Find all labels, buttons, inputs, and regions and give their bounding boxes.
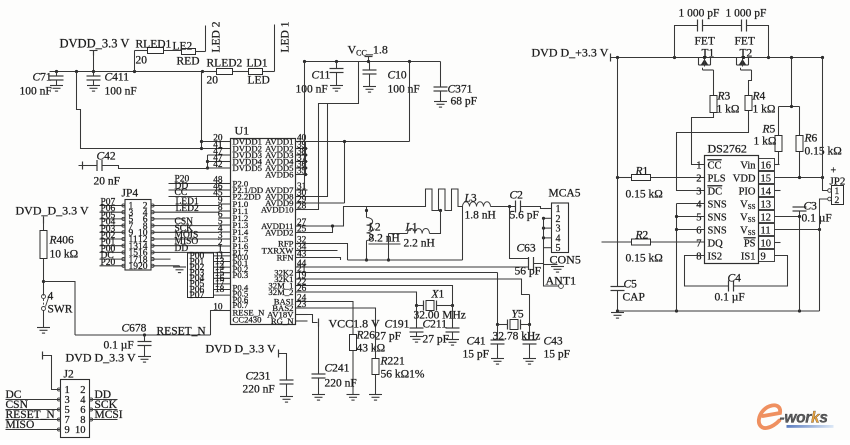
inductor L2 — [366, 207, 368, 218]
svg-text:42: 42 — [213, 160, 223, 170]
svg-text:RLED1: RLED1 — [136, 39, 172, 51]
U1 pin 44 — [296, 266, 308, 268]
wire rail to JP2 pin1 — [822, 58, 824, 178]
svg-text:32M_2: 32M_2 — [268, 287, 293, 297]
crystal X1 — [415, 304, 418, 307]
svg-text:MCSI: MCSI — [95, 409, 123, 421]
svg-text:6: 6 — [696, 225, 701, 236]
switch SWR — [42, 295, 46, 299]
svg-text:C371: C371 — [448, 84, 473, 96]
wire VDD net — [775, 177, 823, 179]
svg-text:C4: C4 — [728, 273, 742, 285]
net label P03 — [214, 272, 231, 274]
wire RLED2 to LD1 — [233, 71, 249, 73]
svg-text:DVD D_3.3 V: DVD D_3.3 V — [206, 342, 276, 356]
svg-text:C678: C678 — [122, 323, 147, 335]
wire RFP step — [308, 244, 348, 261]
svg-text:1 kΩ: 1 kΩ — [754, 136, 777, 148]
MCA5 pin 4 — [544, 237, 552, 239]
svg-text:FET: FET — [735, 36, 755, 48]
wire AVDD10 feed — [308, 104, 328, 210]
ground C241 — [312, 394, 325, 396]
wire R5 to Vin — [775, 152, 779, 165]
wire U1 DVDD2 pin — [202, 148, 231, 150]
svg-text:220 nF: 220 nF — [325, 378, 357, 390]
svg-text:DVDD5: DVDD5 — [233, 163, 262, 173]
capacitor C5 — [611, 286, 625, 288]
wire meander to L1 right — [430, 211, 441, 234]
wire R406 junction to RESET wire — [44, 282, 76, 336]
svg-text:L3: L3 — [464, 193, 477, 205]
svg-text:C11: C11 — [312, 70, 331, 82]
svg-text:AVDD2: AVDD2 — [265, 227, 293, 237]
svg-text:100 nF: 100 nF — [388, 84, 420, 96]
connector JP4 body — [125, 200, 151, 271]
JP4 pin 11 P02 — [100, 238, 126, 240]
ground C678 — [138, 356, 151, 358]
ground C43 — [523, 358, 536, 360]
svg-text:CAP: CAP — [623, 292, 645, 304]
svg-text:P20: P20 — [101, 258, 116, 268]
svg-text:R406: R406 — [49, 235, 75, 247]
svg-text:R6: R6 — [804, 133, 818, 145]
svg-text:DC: DC — [708, 186, 723, 197]
wire DVDD vertical to U1 pins — [201, 72, 203, 149]
svg-text:15 pF: 15 pF — [463, 349, 490, 361]
wire R6 to VDD net — [799, 152, 801, 178]
svg-text:23: 23 — [297, 300, 307, 310]
net label P06 — [214, 289, 231, 291]
wire C63 to ANT1 — [534, 264, 559, 287]
svg-text:RFN: RFN — [277, 252, 295, 262]
svg-text:DVDD_3.3 V: DVDD_3.3 V — [60, 37, 130, 51]
net label P01 — [214, 261, 231, 263]
wire bottom rail — [618, 310, 820, 312]
wire JP4 to U1 stub — [151, 258, 171, 260]
svg-text:8.2 nH: 8.2 nH — [369, 233, 400, 245]
wire TXRXW stub — [308, 250, 338, 252]
svg-text:J2: J2 — [64, 369, 74, 381]
svg-text:32.78 kHz: 32.78 kHz — [493, 331, 541, 343]
svg-text:-works: -works — [780, 410, 829, 427]
svg-text:C43: C43 — [544, 336, 563, 348]
wire R3 to DS2762 CC — [692, 113, 714, 165]
wire pin16 stub — [775, 164, 780, 166]
svg-text:C41: C41 — [467, 336, 486, 348]
svg-text:0.15 kΩ: 0.15 kΩ — [626, 189, 663, 201]
svg-text:18: 18 — [215, 285, 225, 295]
power tick DVD_D_+3.3V — [610, 54, 612, 62]
svg-text:SNS: SNS — [708, 225, 727, 236]
net label P20 — [169, 183, 219, 185]
wire IS2 to C4 — [685, 256, 729, 287]
ground C10 — [363, 86, 376, 88]
capacitor C42 — [96, 160, 98, 171]
svg-text:AVDD6: AVDD6 — [265, 169, 294, 179]
svg-text:L1: L1 — [405, 222, 418, 234]
svg-text:C211: C211 — [423, 319, 448, 331]
svg-text:10 kΩ: 10 kΩ — [50, 249, 79, 261]
wire C3 ground down — [799, 217, 801, 312]
JP4 pin 1 P07 — [100, 205, 126, 207]
svg-text:5: 5 — [696, 212, 701, 223]
svg-text:1 kΩ: 1 kΩ — [717, 104, 740, 116]
wire to J2 pin1 — [43, 356, 61, 390]
net label P00 — [214, 255, 231, 257]
svg-text:C241: C241 — [325, 363, 350, 375]
svg-text:14: 14 — [761, 186, 772, 197]
svg-text:15: 15 — [761, 173, 772, 184]
power tick DVDD_3.3V — [93, 51, 95, 56]
wire DVDD rail down left jog — [77, 72, 202, 149]
wire RESET_N net — [75, 334, 211, 336]
ground C191 — [410, 336, 423, 338]
svg-text:1 000 pF: 1 000 pF — [726, 8, 767, 20]
svg-text:0.1 µF: 0.1 µF — [715, 292, 745, 304]
ground R26 — [347, 394, 360, 396]
wire SNS bus — [677, 203, 705, 205]
svg-text:VCC1.8 V: VCC1.8 V — [329, 317, 380, 331]
resistor RLED2 — [217, 69, 233, 75]
svg-text:CON5: CON5 — [550, 253, 581, 267]
node P0 bus label frame — [188, 253, 214, 298]
svg-text:9: 9 — [761, 251, 766, 262]
wire T2 gate bracket to R4 — [741, 69, 752, 71]
svg-text:27 pF: 27 pF — [375, 331, 402, 343]
JP4 pin 3 P06 — [100, 211, 126, 213]
capacitor C10 — [369, 62, 371, 70]
ground R221 — [369, 394, 382, 396]
resistor R2 — [602, 241, 632, 243]
svg-text:RESET_N: RESET_N — [157, 326, 207, 338]
resistor R3 — [710, 96, 717, 113]
wire RLED1 to LED2 — [164, 50, 182, 52]
svg-text:MCA5: MCA5 — [549, 188, 581, 200]
wire R4 to DS2762 DC — [677, 111, 749, 191]
svg-text:20: 20 — [207, 75, 219, 87]
svg-text:10: 10 — [75, 425, 86, 436]
svg-text:43: 43 — [297, 250, 307, 260]
connector J2 body — [61, 380, 90, 438]
power tick Vcc_1.8 — [365, 56, 373, 58]
svg-text:T2: T2 — [740, 48, 753, 60]
svg-text:DQ: DQ — [708, 238, 724, 249]
power tick C42 net — [82, 162, 84, 170]
svg-text:CC: CC — [708, 160, 722, 171]
wire J2 RESET_N — [6, 419, 61, 421]
JP4 pin 15 P00 — [100, 251, 126, 253]
svg-text:LED 2: LED 2 — [211, 21, 223, 52]
power tick VCC1.8V — [318, 319, 320, 327]
svg-text:2: 2 — [835, 196, 840, 206]
ground C41 — [491, 358, 504, 360]
JP4 pin 17 DC — [100, 258, 126, 260]
JP4 pin 19 P20 — [100, 265, 126, 267]
wire MCA5 ground pins — [543, 218, 545, 264]
resistor R4 — [745, 96, 752, 111]
svg-text:5.6 pF: 5.6 pF — [510, 210, 539, 222]
ground CON5 — [551, 266, 564, 268]
capacitor C411 — [93, 72, 95, 76]
wire C2 node down to C63 — [510, 207, 529, 259]
wire pin11 net — [775, 229, 820, 231]
wire AV18V to VCC1.8V tick — [308, 315, 318, 323]
wire J2 CSN — [6, 409, 61, 411]
svg-text:JP4: JP4 — [122, 188, 139, 200]
svg-text:56 pF: 56 pF — [515, 266, 542, 278]
wire LD1 up — [263, 71, 275, 73]
svg-text:1 000 pF: 1 000 pF — [679, 8, 720, 20]
svg-text:RED: RED — [177, 56, 200, 68]
svg-text:C2: C2 — [510, 190, 524, 202]
svg-text:PS: PS — [744, 238, 756, 249]
capacitor C11 — [336, 62, 338, 69]
wire JP4 to U1 stub — [151, 218, 185, 220]
svg-text:56 kΩ1%: 56 kΩ1% — [381, 369, 425, 381]
svg-text:CC: CC — [175, 188, 188, 198]
wire RFN join bus — [308, 258, 341, 261]
capacitor C211 — [452, 306, 454, 328]
svg-text:C191: C191 — [385, 319, 410, 331]
svg-text:R5: R5 — [762, 124, 776, 136]
wire AVDD7 feed — [305, 62, 308, 191]
power tick J2 supply — [42, 352, 44, 360]
svg-text:R3: R3 — [717, 91, 731, 103]
svg-text:FET: FET — [695, 36, 715, 48]
svg-text:3: 3 — [696, 186, 701, 197]
svg-text:11: 11 — [761, 225, 771, 236]
ground SWR — [37, 327, 50, 329]
svg-text:SNS: SNS — [708, 212, 727, 223]
crystal Y5 — [497, 273, 499, 325]
wire left battery vertical — [617, 58, 619, 287]
svg-text:LED 1: LED 1 — [280, 21, 292, 52]
net label DD — [169, 189, 219, 191]
wire AVDD bus from Vcc rail via C10 line — [409, 62, 411, 142]
svg-text:27 pF: 27 pF — [423, 334, 450, 346]
svg-text:8: 8 — [696, 251, 701, 262]
wire JP4 to U1 MISO — [151, 245, 219, 247]
wire L2 top to meander — [367, 206, 419, 208]
svg-text:ANT1: ANT1 — [546, 274, 577, 288]
wire J2 SCK — [90, 409, 118, 411]
svg-text:RG_N: RG_N — [271, 316, 294, 326]
svg-text:PIO: PIO — [739, 186, 756, 197]
svg-text:16: 16 — [761, 160, 772, 171]
resistor R26 — [350, 335, 357, 351]
svg-text:C63: C63 — [517, 243, 536, 255]
capacitor C63 — [528, 257, 530, 270]
resistor R6 — [799, 107, 801, 136]
wire RF feed 56pF net — [308, 266, 529, 268]
svg-text:13: 13 — [761, 199, 772, 210]
svg-text:0.15 kΩ: 0.15 kΩ — [626, 253, 663, 265]
svg-text:C411: C411 — [105, 72, 130, 84]
capacitor C371 — [440, 62, 442, 87]
svg-text:C231: C231 — [246, 371, 271, 383]
svg-text:10: 10 — [213, 303, 223, 313]
svg-text:SNS: SNS — [708, 199, 727, 210]
wire AVDD1-6 pin bus — [305, 142, 307, 175]
op-amp U1 CC2430 body — [231, 139, 296, 325]
svg-text:AVDD10: AVDD10 — [261, 204, 294, 214]
wire U1 DVDD3-5 bus — [207, 155, 209, 169]
capacitor C678 — [144, 335, 146, 342]
wire L3 to C2 — [491, 206, 516, 208]
svg-text:DVD D_3.3 V: DVD D_3.3 V — [66, 351, 136, 365]
svg-text:T1: T1 — [702, 48, 715, 60]
resistor R221 — [372, 359, 379, 375]
svg-text:IS2: IS2 — [708, 251, 723, 262]
capacitor C71 — [56, 72, 58, 76]
inductor L3 — [463, 202, 491, 207]
capacitor C43 — [529, 325, 531, 341]
svg-text:19: 19 — [129, 262, 139, 272]
wire BASI to R26 — [308, 302, 354, 335]
svg-text:LED2: LED2 — [176, 204, 199, 214]
svg-text:PLS: PLS — [708, 173, 726, 184]
svg-text:0.1 µF: 0.1 µF — [802, 213, 832, 225]
svg-text:C10: C10 — [388, 70, 407, 82]
wire AVDD11 to L2 top — [308, 207, 367, 227]
JP4 pin 9 P03 — [100, 231, 126, 233]
svg-text:VDD: VDD — [733, 173, 756, 184]
LED LE2 — [182, 49, 196, 55]
svg-text:Y5: Y5 — [512, 309, 524, 321]
wire 32M_1 net — [308, 286, 453, 306]
wire pin14 stub — [775, 190, 781, 192]
capacitor C41 — [497, 325, 499, 341]
MCA5 pin 2 — [544, 217, 552, 219]
svg-text:220 nF: 220 nF — [243, 384, 275, 396]
svg-text:15 pF: 15 pF — [544, 349, 571, 361]
svg-text:4: 4 — [48, 291, 54, 303]
resistor R406 — [43, 224, 45, 231]
svg-text:R4: R4 — [752, 91, 766, 103]
wire Vcc rail — [305, 61, 441, 63]
svg-text:C71: C71 — [33, 72, 52, 84]
wire RF bottom bus — [348, 259, 463, 261]
ground C231 — [280, 396, 293, 398]
svg-text:C5: C5 — [624, 279, 638, 291]
wire J2 MCSI — [90, 419, 118, 421]
resistor R5 — [778, 107, 780, 136]
svg-text:25: 25 — [297, 225, 307, 235]
svg-text:20: 20 — [138, 262, 148, 272]
JP4 pin 13 P01 — [100, 245, 126, 247]
wire JP4 pin20 to ground — [151, 265, 180, 267]
wire JP4 to U1 LED2 — [151, 211, 219, 213]
svg-text:LED: LED — [248, 75, 270, 87]
antenna connector ANT1 terminal — [559, 284, 564, 289]
svg-text:9: 9 — [65, 425, 70, 436]
svg-text:CC2430: CC2430 — [233, 314, 263, 324]
svg-text:7: 7 — [696, 238, 701, 249]
JP4 pin 5 P05 — [100, 218, 126, 220]
svg-text:1: 1 — [696, 160, 701, 171]
wire JP4 to U1 LED1 — [151, 205, 219, 207]
capacitor C191 — [416, 306, 418, 328]
MCA5 pin 1 — [544, 208, 552, 210]
ground C11 — [330, 85, 343, 87]
wire AVDD8 feed — [308, 62, 359, 197]
wire BAS2 to R221 — [308, 308, 376, 359]
wire DVDD down to rail — [93, 56, 95, 72]
svg-text:2: 2 — [696, 173, 701, 184]
power tick DVD_D_3.3V — [43, 217, 45, 224]
svg-text:R2: R2 — [635, 230, 649, 242]
svg-text:DVD_D_3.3 V: DVD_D_3.3 V — [16, 204, 89, 218]
svg-text:RLED2: RLED2 — [207, 58, 243, 70]
wire JP4 to U1 MOIS — [151, 238, 219, 240]
svg-text:26: 26 — [297, 284, 307, 294]
svg-text:C42: C42 — [97, 151, 116, 163]
capacitor C4 — [728, 281, 730, 292]
svg-text:C3: C3 — [804, 201, 818, 213]
wire L1 left to RF bus — [388, 234, 390, 261]
wire AVDD9 feed — [344, 142, 346, 204]
resistor RLED1 — [148, 48, 164, 54]
wire J2 DD — [90, 399, 118, 401]
wire 32K2 net — [308, 272, 498, 274]
ground C371 — [434, 101, 447, 103]
capacitor C2 — [515, 201, 517, 213]
svg-text:R1: R1 — [635, 166, 649, 178]
capacitor C241 — [318, 327, 320, 374]
svg-text:28: 28 — [297, 202, 307, 212]
wire JP4 to U1 SCK — [151, 231, 219, 233]
wire T1 gate bracket to R3 — [703, 69, 714, 71]
wire LED2 up — [196, 51, 206, 53]
svg-text:DVD D_+3.3 V: DVD D_+3.3 V — [532, 46, 609, 60]
wire pin12 to C3 — [775, 216, 800, 218]
net label P02 — [214, 266, 231, 268]
svg-text:DS2762: DS2762 — [708, 142, 747, 156]
svg-text:20 nF: 20 nF — [94, 176, 121, 188]
svg-text:1 kΩ: 1 kΩ — [753, 104, 776, 116]
svg-text:100 nF: 100 nF — [296, 84, 328, 96]
resistor R1 — [618, 177, 632, 179]
MCA5 pin 5 — [544, 247, 552, 249]
svg-text:LD1: LD1 — [247, 58, 268, 70]
svg-text:12: 12 — [761, 212, 772, 223]
ground bottom rail — [616, 309, 619, 312]
ground C71 — [50, 85, 63, 87]
svg-text:P0.3: P0.3 — [233, 270, 249, 280]
svg-text:68 pF: 68 pF — [451, 96, 478, 108]
svg-text:2.2 nH: 2.2 nH — [404, 238, 435, 250]
wire battery rail — [611, 57, 823, 59]
wire bus up to meander right — [462, 207, 464, 261]
meander microstrip — [419, 189, 463, 211]
logo e-works — [759, 405, 834, 428]
wire JP4 to U1 CSN — [151, 225, 219, 227]
net label P05 — [214, 283, 231, 285]
wire DVDD rail — [50, 71, 217, 73]
wire U1 DVDD1 pin — [202, 141, 231, 143]
net label CC — [169, 196, 219, 198]
wire rail to R5 R6 — [791, 58, 793, 107]
wire JP2 pin2 to ground rail — [820, 199, 828, 311]
JP4 pin 7 P04 — [100, 225, 126, 227]
svg-text:R26: R26 — [356, 330, 376, 342]
wire R1 to PLS — [651, 177, 705, 179]
svg-text:20: 20 — [136, 55, 148, 67]
capacitor C3 — [793, 206, 807, 208]
svg-text:4: 4 — [696, 199, 702, 210]
ground C211 — [446, 339, 459, 341]
svg-text:IS1: IS1 — [741, 251, 756, 262]
